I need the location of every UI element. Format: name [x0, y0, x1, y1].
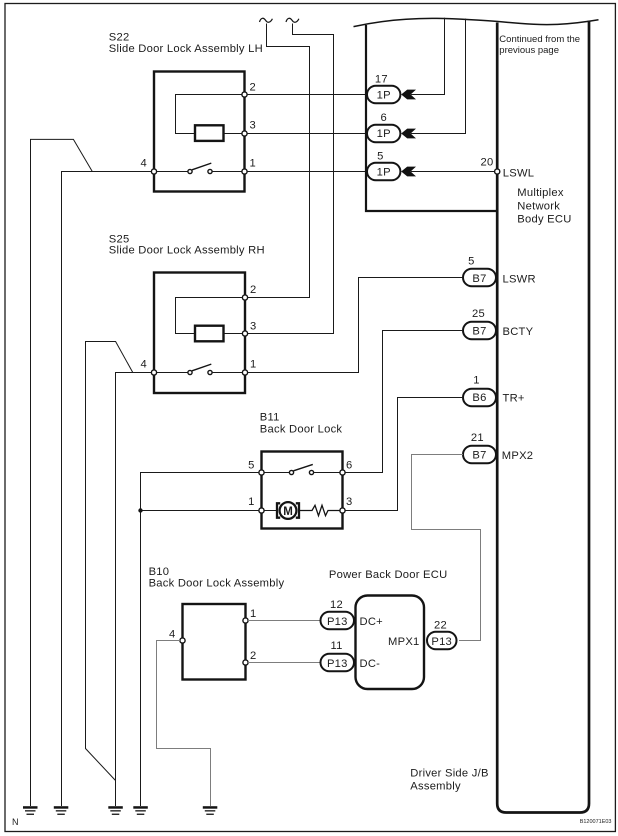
pin 3 of S22 [242, 131, 247, 136]
pin 4 of S22 [151, 169, 156, 174]
connector P13 pin 12 DC+ [321, 612, 355, 630]
connector B7 pin 5 LSWR [463, 269, 496, 287]
svg-text:P13: P13 [327, 658, 348, 670]
junction node at B11 pin1 wire [138, 508, 142, 512]
svg-text:25: 25 [472, 308, 485, 320]
svg-text:DC-: DC- [360, 658, 381, 670]
terminal 20 LSWL on ECU [495, 169, 500, 174]
svg-text:17: 17 [375, 74, 388, 86]
ground G4 [133, 806, 148, 815]
svg-text:Body ECU: Body ECU [517, 214, 571, 226]
wire B11 pin1 to ground line [141, 510, 260, 512]
pin 1 of S22 [242, 169, 247, 174]
pin 1 of S25 [242, 370, 247, 375]
arrow into 1P-6 [401, 129, 416, 139]
svg-text:Back Door Lock Assembly: Back Door Lock Assembly [149, 577, 285, 589]
svg-text:6: 6 [380, 112, 386, 124]
wire B10 pin4 to ground G5 [157, 641, 211, 807]
pin 1 of B10 [243, 618, 248, 623]
svg-text:S25: S25 [109, 233, 130, 245]
wire B10 pin1 to P13-12 [248, 620, 321, 622]
pin 1 of B11 [259, 508, 264, 513]
arrow into 1P-17 [401, 90, 416, 100]
ground G2 [54, 806, 69, 815]
svg-text:1: 1 [250, 158, 256, 170]
pin 4 of B10 [180, 638, 185, 643]
pin 2 of S25 [242, 295, 247, 300]
Power Back Door ECU box [356, 596, 425, 690]
Multiplex Network Body ECU box (left edge of J/B) [497, 21, 589, 813]
ground G5 [203, 806, 218, 815]
svg-text:P13: P13 [327, 616, 348, 628]
wire BCTY to B11 pin6 [346, 331, 464, 473]
switch S22 (door courtesy switch) [192, 163, 211, 170]
wire switch to S22 pin1 [212, 171, 245, 173]
pin 3 of B11 [340, 508, 345, 513]
connector 1P pin 17 [367, 86, 400, 104]
connector P13 pin 11 DC- [321, 654, 355, 672]
connector 1P pin 5 [367, 163, 400, 181]
arrow into 1P-5 [401, 167, 416, 177]
svg-text:5: 5 [468, 256, 474, 268]
svg-text:20: 20 [481, 157, 494, 169]
connector box B11 Back Door Lock [262, 452, 343, 529]
svg-text:1P: 1P [377, 128, 391, 140]
wire S22 pin4 to ground G2 [62, 172, 152, 807]
wire B10 pin2 to P13-11 [248, 662, 321, 664]
svg-text:B120071E03: B120071E03 [580, 819, 612, 825]
wire from break 2 down to S25 pin3 [248, 24, 334, 334]
wire 1P-6 to wavy edge [411, 19, 466, 134]
wire S25 pin4 to ground G3 [116, 373, 152, 807]
svg-text:2: 2 [250, 82, 256, 94]
connector P13 pin 22 MPX1 [427, 632, 457, 650]
wire resistor to S25 pin 3 [224, 333, 246, 335]
wire 1P-17 to wavy edge [411, 18, 445, 95]
svg-text:1: 1 [473, 375, 479, 387]
wire S22 pin4 branch (diagonal jog) to ground G1 [31, 139, 93, 806]
junction block box holding 1P connectors [366, 25, 496, 211]
motor M inside B11 [277, 503, 280, 517]
pin 5 of B11 [259, 470, 264, 475]
svg-text:Slide Door Lock Assembly RH: Slide Door Lock Assembly RH [109, 245, 265, 257]
resistor inside S25 [195, 326, 224, 342]
wire TR+ to B11 pin3 [346, 398, 464, 511]
svg-text:P13: P13 [431, 636, 452, 648]
wavy top edge (continuation) of ECU boxes [354, 18, 599, 26]
svg-text:BCTY: BCTY [503, 326, 534, 338]
wire B11 pin5 to switch [262, 472, 290, 474]
svg-text:4: 4 [169, 629, 175, 641]
pin 6 of B11 [340, 470, 345, 475]
connector B6 pin 1 TR+ [463, 389, 496, 407]
svg-text:Continued from the: Continued from the [499, 34, 580, 45]
wire S22 pin2 to connector 1P-17 [247, 94, 367, 96]
svg-text:M: M [283, 506, 293, 518]
switch S25 (door courtesy switch) [192, 364, 211, 371]
connector 1P pin 6 [367, 125, 400, 143]
svg-text:previous page: previous page [499, 45, 559, 56]
svg-text:LSWR: LSWR [503, 273, 536, 285]
ground G1 [23, 806, 38, 815]
wire MPX2 to P13-22 of Power Back Door ECU [412, 455, 481, 641]
svg-text:1P: 1P [377, 90, 391, 102]
wire switch to S25 pin1 [212, 372, 245, 374]
svg-text:Driver Side J/B: Driver Side J/B [410, 768, 488, 780]
resistor inside S22 [195, 125, 224, 141]
svg-text:5: 5 [248, 460, 254, 472]
svg-text:22: 22 [434, 620, 447, 632]
svg-text:2: 2 [250, 650, 256, 662]
wire B11 pin1 to motor [262, 510, 277, 512]
svg-text:12: 12 [330, 599, 343, 611]
svg-text:TR+: TR+ [503, 393, 525, 405]
pin 2 of S22 [242, 92, 247, 97]
wire S22 pin3 to connector 1P-6 [247, 133, 367, 135]
svg-text:11: 11 [330, 640, 342, 652]
connector B7 pin 25 BCTY [463, 322, 496, 340]
pin 2 of B10 [243, 660, 248, 665]
wire switch to B11 pin6 [314, 472, 343, 474]
svg-text:Back Door Lock: Back Door Lock [260, 423, 343, 435]
break symbol (continued wire) 1 [260, 18, 273, 22]
switch inside B11 [294, 464, 313, 470]
svg-text:N: N [12, 817, 19, 827]
svg-text:B6: B6 [472, 392, 486, 404]
wire 1P-5 to LSWL terminal 20 [411, 171, 496, 173]
svg-text:3: 3 [250, 321, 256, 333]
svg-text:1P: 1P [377, 167, 391, 179]
svg-text:1: 1 [248, 496, 254, 508]
svg-text:S22: S22 [109, 32, 130, 44]
connector box S25 Slide Door Lock Assembly RH [154, 273, 245, 394]
svg-text:Network: Network [517, 200, 560, 212]
wire S25 internal pin2 loop [176, 298, 246, 334]
svg-text:4: 4 [141, 359, 147, 371]
resistor (zigzag) inside B11 [299, 505, 343, 515]
svg-text:3: 3 [346, 496, 352, 508]
svg-text:6: 6 [346, 460, 352, 472]
wire B11 pin5 to ground line [141, 473, 260, 807]
wire S22 internal pin2 loop [176, 95, 245, 134]
svg-text:B11: B11 [260, 412, 280, 424]
svg-text:4: 4 [141, 158, 147, 170]
pin 4 of S25 [151, 370, 156, 375]
connector box S22 Slide Door Lock Assembly LH [154, 72, 245, 192]
wire S22 pin1 to connector 1P-5 [247, 171, 367, 173]
connector B7 pin 21 MPX2 [463, 446, 496, 464]
svg-text:1: 1 [250, 359, 256, 371]
svg-text:Power Back Door ECU: Power Back Door ECU [329, 569, 448, 581]
svg-text:DC+: DC+ [360, 616, 383, 628]
ground G3 [108, 806, 123, 815]
svg-text:MPX1: MPX1 [388, 636, 419, 648]
svg-text:2: 2 [250, 284, 256, 296]
svg-text:3: 3 [250, 120, 256, 132]
svg-text:B10: B10 [149, 566, 170, 578]
wire resistor to pin 3 [224, 133, 245, 135]
svg-text:B7: B7 [472, 273, 486, 285]
svg-text:5: 5 [377, 151, 383, 163]
wire S25 pin1 to connector B7 LSWR [248, 278, 464, 373]
svg-text:Slide Door Lock Assembly LH: Slide Door Lock Assembly LH [109, 43, 263, 55]
pin 3 of S25 [242, 331, 247, 336]
wire S25 pin4 to switch [154, 372, 188, 374]
wire from break 1 down to S25 pin2 [248, 24, 310, 298]
svg-text:Assembly: Assembly [410, 780, 461, 792]
svg-text:21: 21 [471, 432, 484, 444]
svg-text:1: 1 [250, 608, 256, 620]
svg-text:B7: B7 [472, 326, 486, 338]
connector box B10 Back Door Lock Assembly [183, 604, 246, 680]
wire S22 pin4 to switch [154, 171, 188, 173]
svg-text:MPX2: MPX2 [502, 450, 533, 462]
break symbol (continued wire) 2 [286, 18, 299, 22]
wire S25 pin4 branch (diagonal jog) to ground G3 via x85 [86, 342, 133, 781]
svg-text:LSWL: LSWL [503, 167, 534, 179]
svg-text:B7: B7 [472, 450, 486, 462]
svg-text:Multiplex: Multiplex [517, 187, 564, 199]
